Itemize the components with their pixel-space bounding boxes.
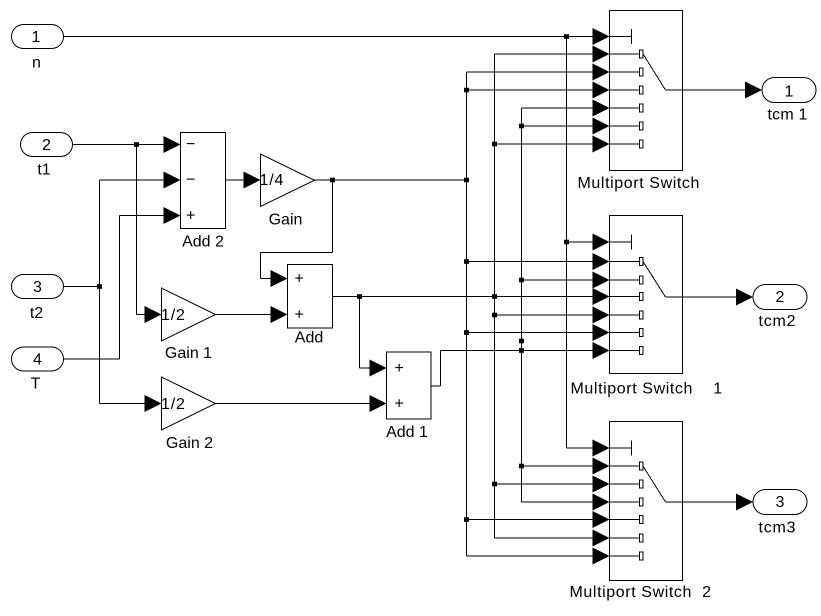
wire t1 to Add 2 input 1 <box>73 136 181 153</box>
inport 3 (t2) <box>12 275 64 323</box>
wire t1 branch to Gain 1 <box>137 145 162 324</box>
wire switch 1 output to tcm 1 <box>683 82 763 99</box>
wire Add 2 output to Gain <box>226 172 261 189</box>
wire Add output to switch 2 input 4 <box>333 288 610 305</box>
svg-text:t1: t1 <box>37 162 50 179</box>
wire T to Add 2 input 3 <box>64 207 181 359</box>
svg-text:1: 1 <box>32 29 41 46</box>
wire to switch 3 input 7 <box>467 548 610 565</box>
svg-text:Gain 1: Gain 1 <box>165 345 212 362</box>
wire switch 2 output to tcm2 <box>683 289 754 306</box>
svg-text:4: 4 <box>33 352 42 369</box>
wire to switch 1 input 3 <box>467 64 610 81</box>
svg-text:1: 1 <box>785 83 794 100</box>
wire to switch 1 input 7 <box>492 136 610 153</box>
wire switch 3 output to tcm3 <box>683 494 754 511</box>
svg-text:3: 3 <box>33 279 42 296</box>
svg-text:2: 2 <box>776 289 785 306</box>
svg-text:Add: Add <box>295 330 323 347</box>
gain block Gain 1 (1/2) <box>161 288 216 362</box>
svg-text:1/4: 1/4 <box>260 172 285 189</box>
svg-text:+: + <box>395 360 404 377</box>
svg-text:Add 2: Add 2 <box>182 234 224 251</box>
svg-text:Gain: Gain <box>269 212 303 229</box>
wire to switch 3 input 5 <box>464 511 610 528</box>
routing column A (Gain signal, x=466.5) <box>466 72 468 556</box>
svg-text:3: 3 <box>776 494 785 511</box>
routing column B (Add signal, x=494.5) <box>494 54 496 538</box>
svg-text:Add 1: Add 1 <box>386 424 428 441</box>
wire Gain output branch to Add input 1 <box>261 180 333 287</box>
wire to switch 3 input 3 <box>492 476 610 493</box>
wire t2 branch to Gain 2 <box>100 395 162 412</box>
wire Gain 1 output to Add input 2 <box>216 306 288 323</box>
wire to switch 2 input 6 <box>464 324 610 341</box>
sum block Add 2 <box>181 133 226 251</box>
wire n to switch controls <box>64 28 610 457</box>
wire to switch 2 input 2 <box>464 253 610 270</box>
wire to switch 1 input 6 <box>519 118 610 135</box>
svg-text:Gain 2: Gain 2 <box>166 435 213 452</box>
outport 3 (tcm3) <box>753 490 807 537</box>
outport 1 (tcm 1) <box>762 78 816 124</box>
svg-text:+: + <box>186 208 195 225</box>
svg-text:−: − <box>186 172 195 189</box>
svg-text:2: 2 <box>42 137 51 154</box>
wire to switch 2 input 5 <box>492 307 610 324</box>
inport 2 (t1) <box>21 133 73 179</box>
svg-text:tcm3: tcm3 <box>759 520 797 537</box>
svg-text:−: − <box>186 136 195 153</box>
svg-text:1/2: 1/2 <box>161 307 186 324</box>
gain block Gain 2 (1/2) <box>161 377 216 452</box>
routing column C (Add 1 signal, x=521.5) <box>519 108 524 502</box>
wire Gain output to routing column A <box>315 178 470 183</box>
svg-text:n: n <box>32 55 41 72</box>
gain block Gain (1/4) <box>260 154 315 229</box>
wire to switch 1 input 4 <box>464 82 610 99</box>
wire Gain 2 output to Add 1 input 2 <box>216 395 387 412</box>
svg-text:T: T <box>31 376 41 393</box>
svg-text:tcm2: tcm2 <box>759 313 797 330</box>
wire Add 1 output to switch 2 input 7 <box>431 342 610 386</box>
inport 4 (T) <box>12 347 64 393</box>
wire to switch 3 input 4 <box>522 494 610 511</box>
multiport switch U2 (Multiport Switch 1) <box>571 216 723 398</box>
wire to switch 3 input 6 <box>495 530 610 547</box>
svg-text:+: + <box>295 271 304 288</box>
multiport switch U3 (Multiport Switch 2) <box>570 422 712 602</box>
outport 2 (tcm2) <box>753 285 807 331</box>
inport 1 (n) <box>12 25 64 72</box>
wire Add output branch to Add 1 input 1 <box>360 297 387 377</box>
wire to switch 1 input 2 <box>495 46 610 63</box>
sum block Add <box>288 265 333 347</box>
svg-text:Multiport Switch 2: Multiport Switch 2 <box>570 584 712 601</box>
svg-text:+: + <box>295 307 304 324</box>
wire t2 to junction <box>64 180 103 404</box>
svg-text:Multiport Switch: Multiport Switch <box>578 175 701 192</box>
wire to switch 2 input 3 <box>519 272 610 289</box>
svg-text:1/2: 1/2 <box>161 396 186 413</box>
svg-text:+: + <box>395 396 404 413</box>
wire t2 branch to Add 2 input 2 <box>100 172 181 189</box>
wire to switch 3 input 2 <box>519 458 610 475</box>
svg-text:tcm 1: tcm 1 <box>768 107 808 124</box>
svg-text:t2: t2 <box>30 305 43 322</box>
sum block Add 1 <box>386 352 431 441</box>
svg-text:Multiport Switch 1: Multiport Switch 1 <box>571 381 723 398</box>
multiport switch U1 (Multiport Switch) <box>578 11 701 193</box>
wire to switch 1 input 5 <box>522 100 610 117</box>
